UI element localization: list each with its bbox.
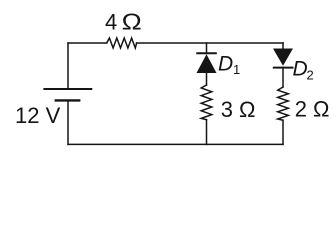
svg-text:1: 1 (233, 62, 240, 77)
wire 3ohm to bottom rail (206, 120, 208, 145)
diode D1 cathode bar (197, 52, 216, 54)
svg-text:Ω: Ω (122, 9, 142, 35)
svg-text:3 Ω: 3 Ω (221, 97, 256, 122)
battery V1 short plate (56, 99, 79, 101)
wire left rail upper (67, 43, 69, 88)
resistor R 3ohm zigzag (201, 85, 212, 120)
resistor R 4ohm zigzag (107, 38, 137, 48)
wire right rail top (282, 43, 284, 49)
battery V1 long plate (44, 88, 91, 90)
wire D1 to resistor (206, 73, 208, 85)
svg-text:D: D (218, 52, 233, 75)
wire D1 branch top (206, 43, 208, 53)
svg-text:12 V: 12 V (15, 103, 61, 128)
diode D1 triangle (points up) (197, 54, 217, 73)
wire left rail lower (67, 102, 69, 145)
wire bottom rail (68, 143, 283, 145)
resistor R 2ohm zigzag (278, 87, 289, 120)
wire top rail right segment (137, 42, 283, 44)
diode D2 anode bar (274, 67, 293, 69)
svg-text:2: 2 (307, 68, 314, 83)
svg-text:2 Ω: 2 Ω (295, 96, 330, 121)
wire D2 to resistor (282, 68, 284, 87)
svg-text:D: D (293, 58, 308, 81)
diode D2 triangle (points down) (273, 49, 293, 66)
svg-text:4: 4 (105, 10, 117, 35)
wire top rail left segment (68, 42, 107, 44)
wire 2ohm to bottom rail (282, 120, 284, 144)
